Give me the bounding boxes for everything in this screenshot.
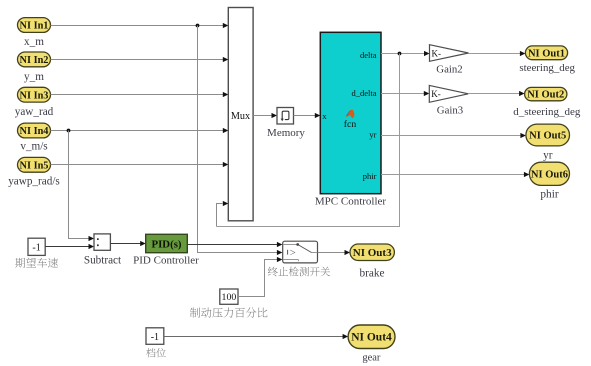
wire Mux to Memory (253, 113, 277, 118)
wire PID to Switch input 1 (187, 242, 282, 247)
constant 100 brake percent (220, 289, 238, 304)
svg-text:NI In1: NI In1 (20, 21, 49, 32)
wire NI In3 to Mux (51, 92, 229, 97)
wire v_m/s branch down to Subtract input 1 (69, 131, 95, 242)
svg-text:K-: K- (432, 48, 442, 58)
svg-text:-1: -1 (151, 332, 159, 343)
outport NI Out6 (529, 162, 569, 185)
constant -1 gear (146, 328, 164, 345)
inport NI In1 (18, 18, 51, 33)
svg-text:NI In3: NI In3 (20, 90, 49, 101)
svg-text:K-: K- (431, 89, 441, 99)
Subtract block (94, 234, 110, 250)
wire feedback to Mux input 6 (arrow) (217, 201, 229, 227)
svg-text:NI In4: NI In4 (20, 126, 49, 137)
label brake pressure percent (CJK) (190, 307, 268, 317)
svg-text:NI Out3: NI Out3 (353, 247, 392, 259)
wire 100 to Switch input 3 (238, 257, 282, 297)
wire gear constant to NI Out4 (164, 334, 348, 339)
wire Switch to NI Out3 (318, 250, 351, 255)
outport NI Out4 (348, 325, 395, 349)
svg-text:NI Out2: NI Out2 (527, 90, 564, 101)
wire Memory to MPC x input (294, 113, 321, 118)
svg-text:NI Out4: NI Out4 (351, 332, 392, 344)
wire NI In1 to Mux (51, 23, 229, 28)
svg-text:>: > (290, 247, 296, 259)
wire delta to Gain2 (381, 51, 430, 56)
svg-text:phir: phir (540, 189, 558, 201)
wire yr to NI Out5 (381, 133, 526, 138)
svg-text:Gain2: Gain2 (436, 63, 462, 75)
svg-text:yaw_rad: yaw_rad (15, 106, 54, 118)
wire Gain2 to NI Out1 (469, 51, 526, 56)
wire NI In2 to Mux (51, 57, 229, 62)
svg-text:Subtract: Subtract (84, 255, 122, 267)
wire x_m branch down to Switch input 2 (198, 26, 283, 256)
svg-text:y_m: y_m (24, 71, 44, 83)
svg-text:NI Out1: NI Out1 (528, 48, 565, 59)
node junction delta feedback (398, 52, 402, 56)
svg-text:-1: -1 (32, 242, 40, 253)
svg-text:fcn: fcn (344, 119, 357, 130)
node junction x_m branch (196, 24, 200, 28)
svg-text:yawp_rad/s: yawp_rad/s (8, 176, 60, 188)
svg-text:MPC Controller: MPC Controller (315, 196, 387, 208)
svg-text:d_delta: d_delta (351, 88, 376, 98)
constant -1 desired speed (28, 238, 45, 255)
svg-text:NI In5: NI In5 (20, 160, 49, 171)
MPC Controller block (320, 32, 381, 193)
label stop detection switch (CJK) (268, 267, 330, 277)
gain Gain2 (430, 45, 469, 62)
wire d_delta to Gain3 (381, 91, 429, 96)
wire phir to NI Out6 (381, 172, 529, 177)
node junction v_m/s branch (67, 129, 71, 133)
outport NI Out5 (526, 124, 570, 146)
wire constant to Subtract input 2 (45, 244, 94, 249)
wire Gain3 to NI Out2 (468, 91, 524, 96)
inport NI In2 (18, 52, 51, 67)
svg-text:NI In2: NI In2 (20, 55, 49, 66)
svg-text:delta: delta (360, 50, 377, 60)
wire delta feedback down and left (217, 54, 400, 227)
svg-text:yr: yr (543, 149, 553, 161)
label desired speed (CJK) (15, 258, 58, 268)
svg-text:x: x (322, 111, 327, 121)
inport NI In3 (18, 87, 51, 102)
svg-text:NI Out6: NI Out6 (531, 169, 568, 180)
outport NI Out2 (525, 87, 567, 100)
svg-text:Mux: Mux (231, 111, 250, 122)
svg-text:PID Controller: PID Controller (133, 255, 199, 267)
inport NI In4 (18, 123, 51, 138)
outport NI Out1 (525, 46, 567, 60)
outport NI Out3 (350, 244, 394, 261)
Memory block (277, 108, 294, 125)
svg-text:NI Out5: NI Out5 (529, 131, 566, 142)
svg-text:x_m: x_m (24, 36, 44, 48)
wire Subtract to PID (110, 241, 145, 246)
svg-text:gear: gear (362, 352, 381, 363)
PID Controller block (146, 234, 188, 252)
Switch block (283, 241, 318, 263)
label gear position (CJK) (146, 348, 166, 357)
wire NI In4 to Mux (51, 128, 229, 133)
svg-text:yr: yr (369, 130, 376, 140)
svg-text:100: 100 (222, 292, 237, 303)
svg-text:Gain3: Gain3 (437, 104, 463, 116)
svg-text:d_steering_deg: d_steering_deg (513, 106, 581, 118)
svg-text:PID(s): PID(s) (152, 239, 182, 251)
svg-text:phir: phir (363, 171, 377, 181)
inport NI In5 (18, 157, 51, 172)
svg-text:v_m/s: v_m/s (20, 141, 47, 153)
svg-text:steering_deg: steering_deg (519, 62, 575, 74)
svg-text:brake: brake (359, 267, 384, 279)
MATLAB fcn logo (344, 110, 357, 131)
Mux block (228, 8, 253, 221)
gain Gain3 (429, 85, 468, 102)
svg-text:Memory: Memory (267, 127, 305, 139)
wire NI In5 to Mux (51, 162, 229, 167)
